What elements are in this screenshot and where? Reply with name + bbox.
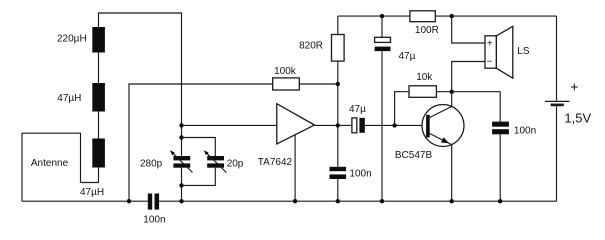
wire L1 to L2 xyxy=(98,53,100,84)
node dot TA7642 output node xyxy=(336,123,340,127)
inductor L3 47uH xyxy=(92,139,105,168)
label TA7642 xyxy=(258,157,293,168)
speaker LS xyxy=(485,26,513,78)
capacitor C1 100n series in ground rail xyxy=(148,194,159,210)
wire L3 bottom to antenna box xyxy=(81,168,99,183)
capacitor C7 100n collector to ground xyxy=(492,92,509,202)
wire input line to TA7642 xyxy=(182,124,277,126)
label 100k xyxy=(274,66,297,77)
node dot C5 bottom on rail xyxy=(380,199,384,203)
wire supply column xyxy=(337,16,339,201)
node dot TA7642 ground on rail xyxy=(293,199,297,203)
wire speaker plus lead xyxy=(452,16,485,43)
node dot rail to speaker branch xyxy=(450,14,454,18)
svg-text:−: − xyxy=(487,57,493,68)
capacitor C6 47u electrolytic coupling xyxy=(338,118,426,133)
label 47uH (L2) xyxy=(57,93,81,104)
node dot AGC column on rail xyxy=(127,199,131,203)
svg-text:+: + xyxy=(487,38,493,49)
label BC547B xyxy=(395,150,433,161)
node dot supply column on rail xyxy=(336,199,340,203)
svg-text:10k: 10k xyxy=(416,72,433,83)
wire 20p branch xyxy=(182,138,216,186)
node dot base node xyxy=(392,123,396,127)
antenna box xyxy=(22,133,81,201)
capacitor C4 100n TA7642 output to ground xyxy=(330,167,347,179)
label 10k xyxy=(416,72,433,83)
svg-text:1,5V: 1,5V xyxy=(564,110,591,125)
svg-text:820R: 820R xyxy=(299,41,323,52)
svg-text:47µ: 47µ xyxy=(399,51,416,62)
svg-text:100R: 100R xyxy=(415,25,439,36)
inductor L2 47uH xyxy=(92,83,105,112)
inductor L1 220uH xyxy=(92,27,105,53)
svg-text:LS: LS xyxy=(517,46,530,57)
battery BT1 xyxy=(545,16,570,201)
node dot collector junction xyxy=(450,90,454,94)
node dot tuned circuit top xyxy=(179,123,183,127)
svg-text:220µH: 220µH xyxy=(57,33,87,44)
label battery plus xyxy=(570,78,578,94)
svg-text:+: + xyxy=(570,78,578,94)
variable capacitor C3 20p xyxy=(204,150,227,172)
node dot varicap bottom xyxy=(179,183,183,187)
label Antenne xyxy=(31,158,69,169)
ground rail right segment xyxy=(159,200,557,202)
label 820R xyxy=(299,41,323,52)
wire TA7642 ground pin xyxy=(294,135,296,201)
resistor R4 100R xyxy=(410,11,435,22)
label 100R xyxy=(415,25,439,36)
label 100n (C7) xyxy=(514,126,536,137)
label 220uH xyxy=(57,33,87,44)
power rail top xyxy=(338,15,557,17)
node dot 100k to supply column xyxy=(336,82,340,86)
label 100n (C4) xyxy=(349,169,371,180)
svg-text:47µH: 47µH xyxy=(57,93,81,104)
svg-text:280p: 280p xyxy=(140,159,163,170)
label 280p xyxy=(140,159,163,170)
node dot tuning column on rail xyxy=(179,199,183,203)
svg-text:100k: 100k xyxy=(274,66,297,77)
resistor R3 10k xyxy=(409,86,436,98)
label 100n (C1) xyxy=(143,215,165,226)
node dot C5 top on rail xyxy=(380,14,384,18)
svg-text:100n: 100n xyxy=(349,169,371,180)
capacitor C5 47u electrolytic supply decoupling xyxy=(375,16,391,201)
label 20p xyxy=(227,159,244,170)
wire top-left loop from coil top to tuning column xyxy=(99,13,182,125)
svg-text:47µH: 47µH xyxy=(80,187,104,198)
svg-text:TA7642: TA7642 xyxy=(258,157,293,168)
label 47uH (L3) xyxy=(80,187,104,198)
svg-text:100n: 100n xyxy=(143,215,165,226)
svg-text:20p: 20p xyxy=(227,159,244,170)
resistor R1 100k xyxy=(273,78,300,90)
node dot C7 on rail xyxy=(498,199,502,203)
wire tuning column through varicap to rail xyxy=(181,125,183,201)
label 47u (C5) xyxy=(399,51,416,62)
transistor Q1 BC547B xyxy=(422,105,464,147)
wire collector up to 10k line xyxy=(451,92,453,107)
ground rail left segment xyxy=(22,200,148,202)
wire base node up to 10k line xyxy=(395,92,501,126)
wire left AGC column and 100k line xyxy=(129,84,338,201)
node dot 20p branch tap xyxy=(179,135,183,139)
node dot emitter on rail xyxy=(450,199,454,203)
wire TA7642 output xyxy=(315,124,338,126)
svg-text:BC547B: BC547B xyxy=(395,150,433,161)
op-amp U1 TA7642 xyxy=(277,104,315,144)
svg-text:Antenne: Antenne xyxy=(31,158,69,169)
variable capacitor C2 280p xyxy=(170,150,193,172)
wire speaker minus lead to collector xyxy=(452,62,485,92)
svg-text:100n: 100n xyxy=(514,126,536,137)
svg-text:47µ: 47µ xyxy=(349,104,366,115)
wire emitter down to rail xyxy=(451,145,453,202)
label 47u (C6) xyxy=(349,104,366,115)
label LS xyxy=(517,46,530,57)
resistor R2 820R xyxy=(332,35,345,62)
label 1,5V xyxy=(564,110,591,125)
wire L2 to L3 xyxy=(98,112,100,139)
